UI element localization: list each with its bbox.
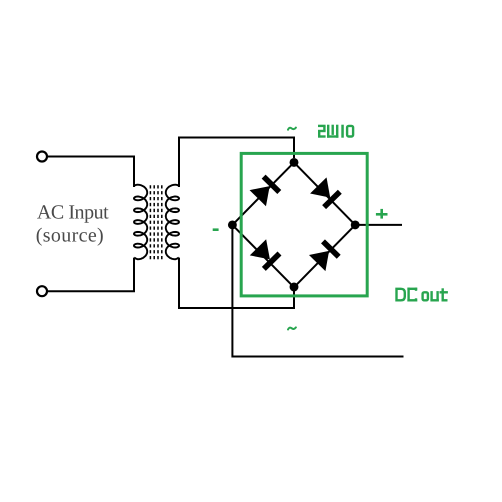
transformer T1 core xyxy=(150,185,161,260)
transformer T1 primary winding xyxy=(134,185,147,260)
wire arm top-right xyxy=(294,162,355,225)
diode D2 (top to right) xyxy=(310,177,342,209)
wire DC plus output xyxy=(355,224,402,226)
svg-text:(source): (source) xyxy=(36,225,104,247)
label minus xyxy=(213,228,219,231)
bridge rectifier outline box 2W10 xyxy=(241,153,367,296)
diode D3 (left to bottom) xyxy=(250,239,282,271)
label plus xyxy=(376,209,388,219)
wire arm left-top xyxy=(232,162,294,225)
wire DC minus output xyxy=(232,225,403,357)
svg-text:AC Input: AC Input xyxy=(37,202,109,224)
terminal top-left xyxy=(37,152,47,162)
node plus (right) xyxy=(351,220,360,229)
wire secondary bottom to bridge AC2 xyxy=(179,258,294,308)
wire AC bottom xyxy=(47,258,134,292)
wire AC top xyxy=(47,157,134,188)
diode D4 (bottom to right) xyxy=(309,239,341,271)
diode D1 (left to top) xyxy=(250,174,282,206)
transformer T1 secondary winding xyxy=(166,185,179,260)
node AC2 (bottom) xyxy=(290,283,299,292)
wire arm left-bottom xyxy=(232,225,294,287)
wire arm bottom-right xyxy=(294,225,355,287)
wire secondary top to bridge AC1 xyxy=(179,138,294,188)
label ~ top xyxy=(288,128,296,130)
terminal bottom-left xyxy=(37,286,47,296)
node AC1 (top) xyxy=(290,158,299,167)
label 2W10 xyxy=(318,125,353,138)
label DC out xyxy=(397,288,448,302)
label ~ bottom xyxy=(288,327,296,329)
bridge diamond arms xyxy=(232,162,355,287)
node minus (left) xyxy=(228,220,237,229)
